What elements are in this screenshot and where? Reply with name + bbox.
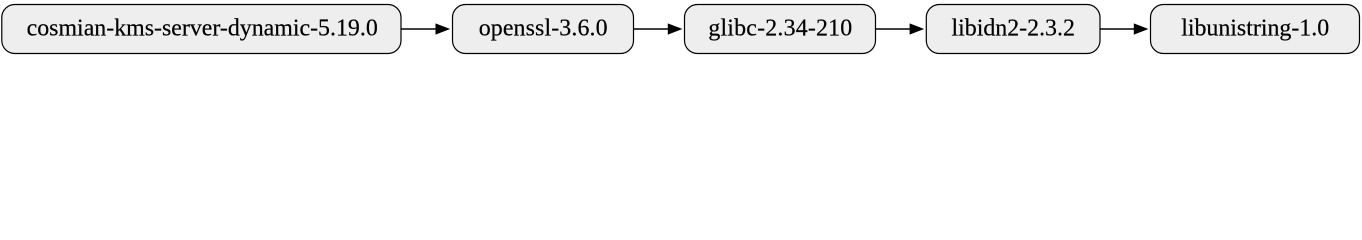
svg-text:cosmian-kms-server-dynamic-5.1: cosmian-kms-server-dynamic-5.19.0 bbox=[27, 16, 378, 42]
svg-text:libidn2-2.3.2: libidn2-2.3.2 bbox=[951, 16, 1074, 42]
svg-text:openssl-3.6.0: openssl-3.6.0 bbox=[479, 16, 608, 42]
svg-text:glibc-2.34-210: glibc-2.34-210 bbox=[708, 16, 852, 42]
svg-text:libunistring-1.0: libunistring-1.0 bbox=[1181, 16, 1329, 42]
